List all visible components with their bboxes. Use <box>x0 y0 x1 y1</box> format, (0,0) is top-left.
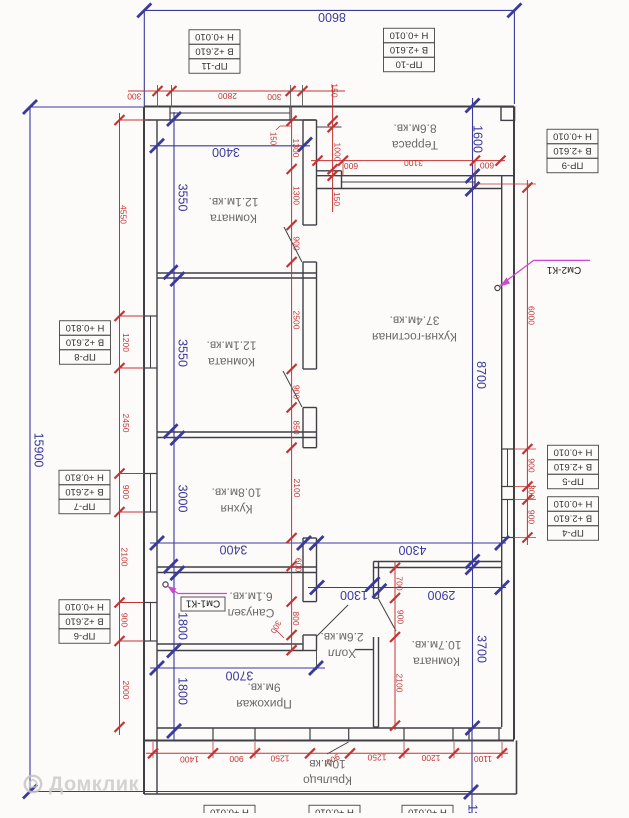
svg-text:Н +0.010: Н +0.010 <box>553 130 592 141</box>
svg-text:300: 300 <box>127 91 141 101</box>
svg-text:700: 700 <box>395 576 405 590</box>
svg-text:Кухня: Кухня <box>220 502 252 516</box>
svg-text:600: 600 <box>480 161 494 171</box>
svg-text:4550: 4550 <box>119 205 129 224</box>
svg-text:В +2.610: В +2.610 <box>553 145 591 156</box>
svg-text:1800: 1800 <box>176 612 190 640</box>
svg-text:Домклик: Домклик <box>49 774 139 796</box>
svg-text:ПР-10: ПР-10 <box>396 58 423 69</box>
svg-text:В +2.610: В +2.610 <box>554 461 592 472</box>
svg-text:2450: 2450 <box>121 414 131 433</box>
svg-text:900: 900 <box>291 385 301 399</box>
svg-text:2100: 2100 <box>292 479 302 498</box>
svg-text:2100: 2100 <box>120 548 130 567</box>
svg-text:1250: 1250 <box>367 753 386 763</box>
svg-text:Комната: Комната <box>413 655 460 669</box>
svg-text:ПР-5: ПР-5 <box>562 475 584 486</box>
svg-text:1400: 1400 <box>180 755 199 765</box>
svg-text:ПР-8: ПР-8 <box>74 351 96 362</box>
svg-text:Санузел: Санузел <box>228 606 275 620</box>
svg-text:3000: 3000 <box>176 485 190 513</box>
svg-text:ПР-4: ПР-4 <box>562 527 584 538</box>
svg-text:6000: 6000 <box>527 306 537 325</box>
svg-text:1300: 1300 <box>291 186 301 205</box>
svg-text:600: 600 <box>294 558 304 572</box>
svg-text:3100: 3100 <box>404 158 423 168</box>
svg-text:Н +0.810: Н +0.810 <box>65 471 104 482</box>
svg-text:Н +0.010: Н +0.010 <box>315 806 354 813</box>
svg-text:Крыльцо: Крыльцо <box>303 774 352 788</box>
svg-text:12.1м.кв.: 12.1м.кв. <box>209 195 259 209</box>
svg-text:В +2.610: В +2.610 <box>66 336 104 347</box>
svg-text:8.6м.кв.: 8.6м.кв. <box>393 122 436 136</box>
svg-text:2100: 2100 <box>395 674 405 693</box>
svg-text:1200: 1200 <box>421 753 440 763</box>
svg-text:1100: 1100 <box>474 754 493 764</box>
svg-text:900: 900 <box>291 236 301 250</box>
svg-text:ПР-6: ПР-6 <box>74 630 96 641</box>
svg-text:900: 900 <box>121 485 131 499</box>
svg-text:Н +0.010: Н +0.010 <box>408 806 447 813</box>
svg-text:В +2.610: В +2.610 <box>390 44 428 55</box>
svg-text:3550: 3550 <box>176 184 190 212</box>
svg-text:800: 800 <box>291 611 301 625</box>
svg-text:См1-К1: См1-К1 <box>185 598 220 609</box>
svg-text:2000: 2000 <box>121 681 131 700</box>
svg-text:600: 600 <box>344 161 358 171</box>
svg-text:1600: 1600 <box>471 125 485 153</box>
svg-text:В +2.610: В +2.610 <box>195 45 233 56</box>
svg-text:150: 150 <box>269 132 278 146</box>
svg-text:900: 900 <box>229 754 243 764</box>
svg-text:3700: 3700 <box>226 669 254 683</box>
svg-text:15900: 15900 <box>32 433 46 468</box>
svg-text:Н +0.010: Н +0.010 <box>195 31 234 42</box>
svg-text:1250: 1250 <box>270 754 289 764</box>
svg-text:3700: 3700 <box>475 635 489 663</box>
svg-text:Холл: Холл <box>328 647 356 661</box>
svg-text:37.4м.кв.: 37.4м.кв. <box>390 314 440 328</box>
svg-text:1800: 1800 <box>176 677 190 705</box>
svg-text:300: 300 <box>527 485 537 499</box>
svg-text:150: 150 <box>330 83 340 97</box>
svg-text:900: 900 <box>527 458 537 472</box>
svg-text:8600: 8600 <box>318 10 346 24</box>
svg-text:Н +0.010: Н +0.010 <box>210 806 249 813</box>
svg-text:12.1м.кв.: 12.1м.кв. <box>207 339 257 353</box>
svg-text:10м.кв: 10м.кв <box>309 757 346 771</box>
svg-text:Н +0.810: Н +0.810 <box>66 322 105 333</box>
svg-text:Н +0.010: Н +0.010 <box>554 498 593 509</box>
svg-text:10.8м.кв.: 10.8м.кв. <box>212 486 262 500</box>
svg-text:900: 900 <box>120 613 130 627</box>
svg-text:150: 150 <box>332 192 342 206</box>
svg-text:Комната: Комната <box>210 212 257 226</box>
svg-text:3400: 3400 <box>220 543 248 557</box>
svg-text:Терраса: Терраса <box>392 138 438 152</box>
svg-text:Кухня-гостиная: Кухня-гостиная <box>372 330 457 344</box>
svg-text:2900: 2900 <box>428 588 456 602</box>
svg-text:4300: 4300 <box>399 543 427 557</box>
svg-text:300: 300 <box>267 92 281 102</box>
svg-text:3400: 3400 <box>212 145 240 159</box>
svg-text:900: 900 <box>396 610 406 624</box>
svg-text:ПР-9: ПР-9 <box>562 159 584 170</box>
svg-text:2500: 2500 <box>291 311 301 330</box>
svg-text:Прихожая: Прихожая <box>236 697 292 711</box>
svg-text:В +2.610: В +2.610 <box>65 486 103 497</box>
svg-text:Н +0.010: Н +0.010 <box>65 601 104 612</box>
svg-text:1200: 1200 <box>466 804 480 813</box>
svg-text:2800: 2800 <box>218 91 237 101</box>
svg-text:1300: 1300 <box>340 588 368 602</box>
svg-text:Н +0.010: Н +0.010 <box>390 29 429 40</box>
svg-text:1200: 1200 <box>121 333 131 352</box>
svg-text:ПР-7: ПР-7 <box>74 500 96 511</box>
svg-text:2.6м.кв.: 2.6м.кв. <box>320 630 363 644</box>
svg-text:В +2.610: В +2.610 <box>554 512 592 523</box>
svg-text:ПР-11: ПР-11 <box>201 60 227 71</box>
svg-text:См2-К1: См2-К1 <box>546 264 581 275</box>
svg-text:В +2.610: В +2.610 <box>65 615 103 626</box>
svg-text:900: 900 <box>527 510 537 524</box>
svg-text:1000: 1000 <box>333 143 343 162</box>
svg-text:9м.кв.: 9м.кв. <box>247 681 280 695</box>
svg-text:3550: 3550 <box>176 339 190 367</box>
svg-text:Комната: Комната <box>208 355 255 369</box>
svg-text:1300: 1300 <box>291 139 301 158</box>
svg-text:8700: 8700 <box>474 361 488 389</box>
svg-text:10.7м.кв.: 10.7м.кв. <box>412 638 462 652</box>
svg-text:850: 850 <box>291 420 301 434</box>
svg-text:Н +0.010: Н +0.010 <box>554 446 593 457</box>
svg-text:6.1м.кв.: 6.1м.кв. <box>229 590 272 604</box>
